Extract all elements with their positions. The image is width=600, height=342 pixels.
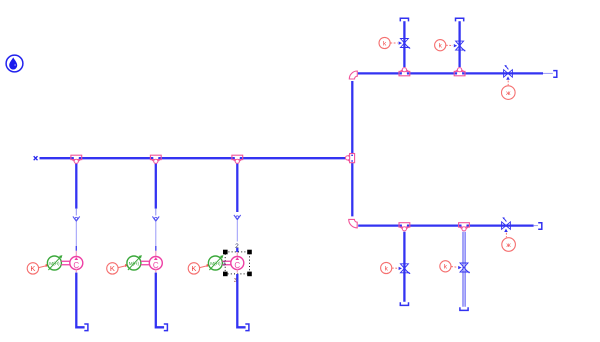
k sensor D <box>440 261 451 272</box>
riser pipe 2 upper segment <box>155 163 157 215</box>
water source icon <box>6 55 23 72</box>
tee TB upper header <box>454 68 465 76</box>
arrow into valve VD <box>458 266 461 269</box>
lower header elbow <box>349 219 358 228</box>
svg-text:2: 2 <box>235 243 239 250</box>
lower header pipe <box>358 224 538 226</box>
control line k-C <box>392 267 398 269</box>
return pipe 1 <box>76 269 84 327</box>
control line H1 <box>507 81 509 86</box>
valve VB <box>456 41 466 51</box>
control line k-B <box>446 44 453 46</box>
end cap 3 <box>245 324 249 331</box>
main supply pipe <box>40 157 346 159</box>
junction tee at main end <box>346 81 355 216</box>
upper header pipe <box>358 72 553 74</box>
k sensor C <box>381 262 392 273</box>
pump unit P2 <box>107 255 163 274</box>
end cap 1 <box>84 324 88 331</box>
return pipe 2 <box>156 269 164 327</box>
lower branch pipe C <box>403 232 405 302</box>
arrow into valve VA <box>399 41 402 44</box>
tee TA upper header <box>399 68 410 76</box>
bottom end cap D <box>460 307 468 310</box>
top end cap A <box>400 18 408 21</box>
upper header end cap <box>553 71 557 78</box>
riser pipe 1 lower segment <box>75 222 77 257</box>
pump unit P3 <box>188 255 244 274</box>
selection box around pump 3 <box>223 250 252 277</box>
lower header end cap <box>538 223 542 230</box>
tee T2 on main <box>150 155 161 163</box>
node marker left end of main <box>34 156 38 160</box>
flow arrow riser 2 <box>152 216 159 221</box>
flow arrow riser 3 <box>234 215 241 220</box>
arrow into valve VB <box>454 44 457 47</box>
top branch riser B <box>458 21 460 67</box>
zh sensor H2 <box>502 238 516 252</box>
bottom end cap C <box>400 302 408 305</box>
tee T3 on main <box>232 155 243 163</box>
top branch riser A <box>403 21 405 67</box>
lower branch pipe D <box>463 232 465 307</box>
k sensor B <box>435 40 446 51</box>
valve VA <box>400 39 410 49</box>
zh sensor H1 <box>502 86 516 100</box>
tee TD lower header <box>459 223 470 231</box>
valve VC <box>400 264 410 274</box>
control line k-D <box>451 266 457 269</box>
riser pipe 3 upper segment <box>236 163 238 212</box>
tee TC lower header <box>399 223 410 231</box>
return pipe 3 <box>237 269 245 327</box>
control line k-A <box>390 42 397 44</box>
arrow into valve VC <box>399 267 402 270</box>
end cap 2 <box>164 324 168 331</box>
valve VD <box>460 263 470 273</box>
upper header elbow <box>349 71 357 79</box>
riser pipe 3 lower segment <box>236 220 238 256</box>
riser pipe 1 upper segment <box>75 163 77 215</box>
pump unit P1 <box>27 255 83 274</box>
riser pipe 2 lower segment <box>155 222 157 257</box>
k sensor A <box>379 37 390 48</box>
control line H2 <box>505 233 507 237</box>
tee T1 on main <box>71 155 82 163</box>
top end cap B <box>456 18 464 21</box>
header valve H1 <box>504 65 513 80</box>
flow arrow riser 1 <box>73 216 80 221</box>
header valve H2 <box>502 217 511 232</box>
